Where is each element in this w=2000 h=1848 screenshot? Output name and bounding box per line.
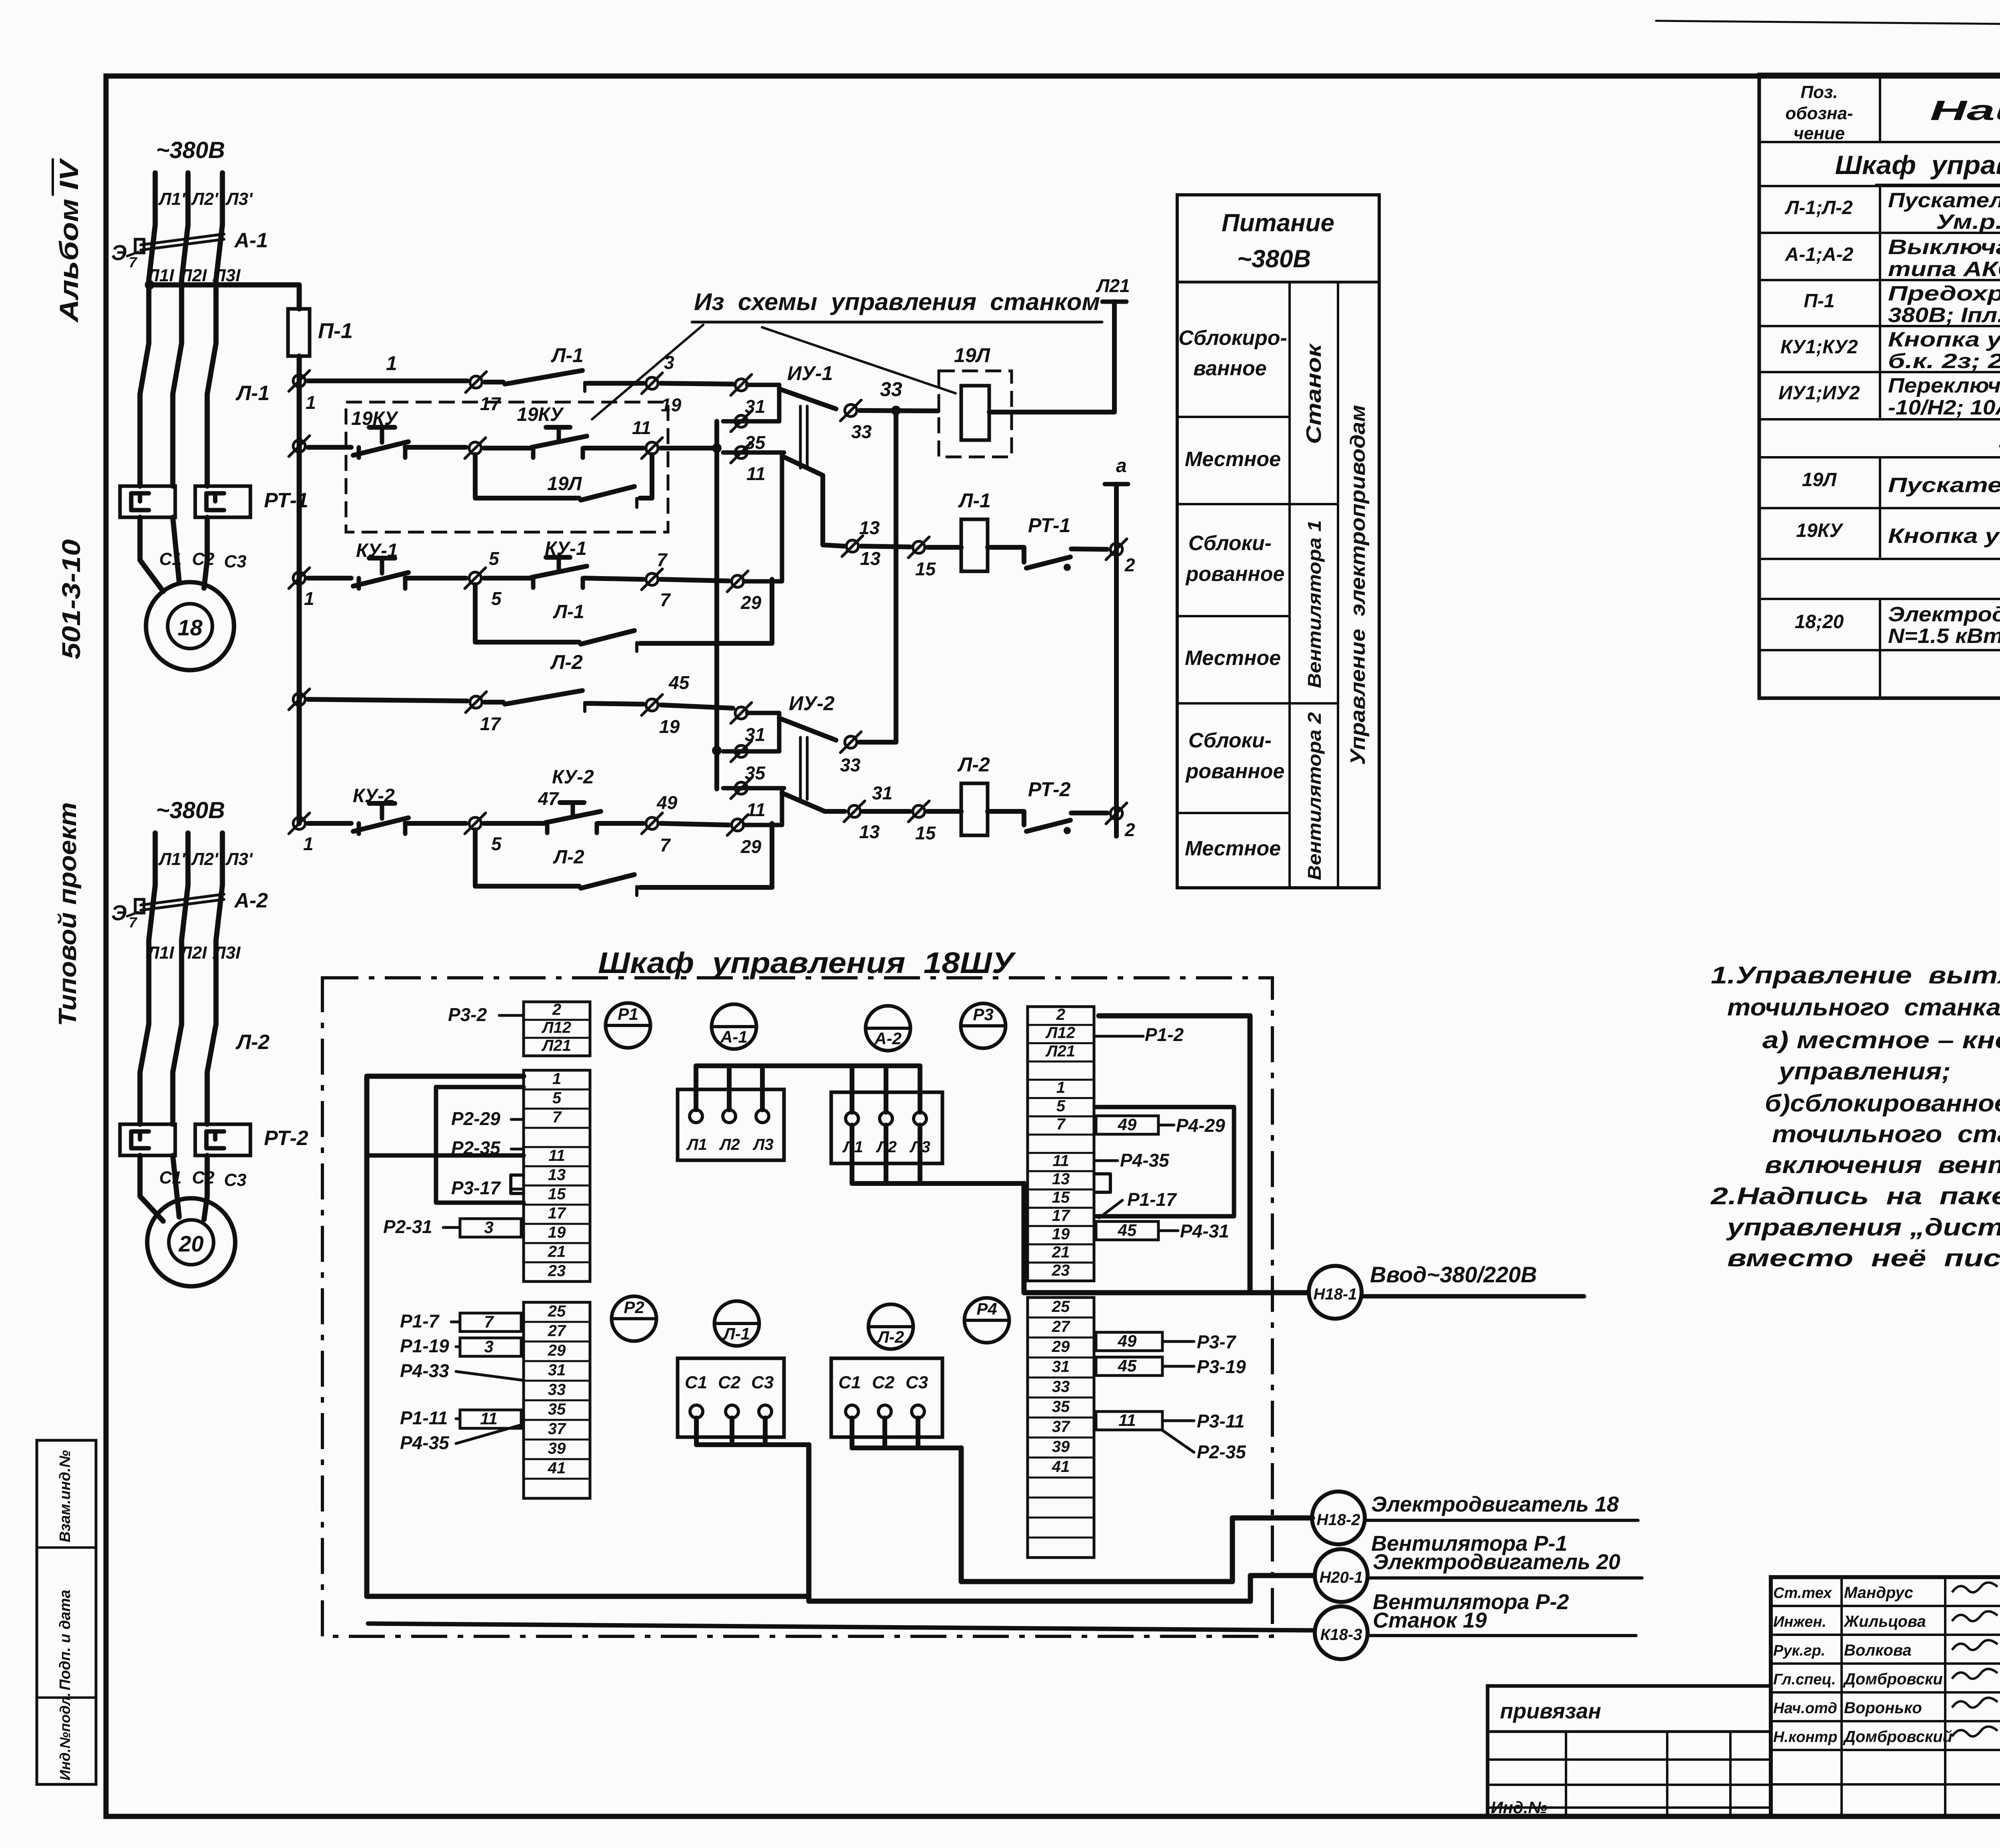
svg-text:35: 35: [548, 1400, 566, 1418]
svg-text:15: 15: [915, 823, 936, 843]
label R4-35: [1096, 1150, 1170, 1171]
svg-text:Л21: Л21: [541, 1037, 571, 1054]
box 49 R4-29: [1096, 1115, 1225, 1136]
svg-text:1: 1: [304, 588, 314, 609]
box 49 R3-7: [1096, 1331, 1237, 1352]
node 2 lower: [1106, 803, 1135, 840]
svg-text:Р3: Р3: [973, 1005, 993, 1024]
row KU1 KU2 buttons: [1780, 328, 2000, 373]
svg-text:7: 7: [129, 914, 138, 931]
rail a: [1105, 455, 1128, 836]
svg-text:Р4-33: Р4-33: [400, 1360, 449, 1381]
contact L-2 rung: [485, 651, 643, 711]
svg-text:Мандрус: Мандрус: [1844, 1584, 1913, 1602]
svg-text:точильного станка предусмотр: точильного станка предусмотрено:: [1727, 994, 2000, 1021]
svg-text:31: 31: [745, 724, 765, 745]
svg-text:19Л: 19Л: [547, 473, 582, 495]
svg-text:35: 35: [1052, 1398, 1070, 1416]
svg-text:Домбровски: Домбровски: [1843, 1670, 1943, 1688]
row 19KU button: [1796, 519, 2000, 548]
svg-text:18;20: 18;20: [1795, 611, 1844, 633]
label R2-31 box 3: [383, 1216, 521, 1237]
svg-text:19Л: 19Л: [954, 344, 991, 366]
button 19KU NC: [351, 408, 408, 458]
svg-text:Местное: Местное: [1185, 837, 1281, 860]
wire rung1 a: [308, 352, 467, 381]
svg-text:Пускатель магнитный типа ПМЕ-1: Пускатель магнитный типа ПМЕ-112: [1888, 189, 2000, 212]
svg-text:б)сблокированное с точильным: б)сблокированное с точильным станком. Пу…: [1765, 1090, 2000, 1117]
svg-text:Управление электроприводам: Управление электроприводам: [1346, 405, 1370, 765]
svg-text:37: 37: [548, 1420, 566, 1438]
box 11b: [460, 1409, 521, 1428]
aux 19L loop: [475, 454, 652, 507]
svg-text:Р2-35: Р2-35: [451, 1137, 501, 1158]
svg-text:Л3': Л3': [225, 849, 253, 869]
box 3b: [460, 1337, 521, 1356]
svg-text:Л-1: Л-1: [235, 382, 270, 405]
svg-text:Р4-31: Р4-31: [1180, 1221, 1229, 1241]
svg-text:2: 2: [1056, 1006, 1065, 1023]
pitanie col stanok: [1302, 343, 1326, 444]
svg-text:ванное: ванное: [1193, 357, 1266, 380]
node 13 lower: [844, 783, 892, 842]
svg-text:Р2: Р2: [624, 1298, 644, 1317]
button KU-2 NC: [353, 785, 408, 834]
lamp P1: [606, 1003, 650, 1048]
margin text 501-3-10: [57, 539, 86, 659]
node 3 19: [642, 352, 682, 415]
svg-text:С1: С1: [159, 549, 182, 569]
svg-text:1: 1: [386, 352, 397, 374]
svg-text:33: 33: [851, 421, 872, 442]
node 49 7: [642, 792, 678, 855]
node 35 upper: [723, 403, 779, 453]
svg-text:Шкаф управления 18ШУ: Шкаф управления 18ШУ: [598, 946, 1016, 979]
pitanie row labels: [1178, 326, 1287, 860]
wire tap to fuse: [145, 280, 299, 309]
node 11 upper stub: [723, 442, 784, 484]
node 33 upper: [840, 400, 872, 442]
svg-text:Местное: Местное: [1185, 448, 1281, 471]
wire coil to rail L21: [989, 410, 1114, 414]
svg-text:С2: С2: [718, 1373, 741, 1392]
wire bus to strip 11: [367, 1153, 524, 1158]
wire loop TR big: [1099, 1016, 1250, 1293]
label R4-35b: [400, 1424, 523, 1453]
svg-text:Л-1: Л-1: [722, 1324, 750, 1343]
pitanie col upravlenie: [1346, 405, 1370, 765]
svg-text:19КУ: 19КУ: [351, 408, 399, 429]
lamp P4: [964, 1298, 1009, 1343]
svg-text:19: 19: [661, 394, 682, 415]
coil L-1: [928, 489, 991, 571]
wire KU2 a: [308, 821, 351, 826]
svg-text:18: 18: [178, 615, 203, 640]
switch IU-2 pole bars: [800, 737, 807, 799]
svg-text:Вентилятора 2: Вентилятора 2: [1304, 712, 1325, 880]
svg-text:Р4: Р4: [976, 1299, 997, 1318]
svg-text:Из схемы управления станком: Из схемы управления станком: [694, 288, 1100, 315]
svg-text:Вентилятора 1: Вентилятора 1: [1304, 520, 1325, 688]
label R1-2: [1096, 1024, 1184, 1045]
node KU2 rung start: [289, 813, 314, 854]
node 29 upper: [727, 571, 762, 613]
svg-text:501-3-10: 501-3-10: [57, 539, 86, 659]
svg-text:5: 5: [552, 1089, 562, 1107]
svg-text:чение: чение: [1794, 124, 1845, 143]
svg-text:Сблоки-: Сблоки-: [1188, 532, 1272, 555]
wire 19KU c: [661, 443, 722, 453]
svg-text:Волкова: Волкова: [1844, 1642, 1912, 1659]
node 15 lower: [908, 801, 936, 843]
svg-text:49: 49: [1118, 1331, 1137, 1350]
svg-text:13: 13: [1052, 1170, 1070, 1188]
wire left bus: [367, 1076, 809, 1596]
svg-text:Л12: Л12: [541, 1019, 571, 1036]
svg-text:С3: С3: [224, 1170, 246, 1190]
outer thin border top right: [1656, 21, 2000, 29]
node 7: [642, 549, 671, 610]
wire C1 box to N20-1: [696, 1418, 1314, 1601]
svg-text:а: а: [1116, 455, 1127, 477]
svg-text:Нач.отд: Нач.отд: [1773, 1700, 1837, 1717]
svg-text:~380В: ~380В: [156, 797, 225, 823]
svg-text:Л3I: Л3I: [212, 943, 241, 963]
node 19KU rung start: [289, 436, 310, 456]
svg-text:45: 45: [668, 672, 690, 693]
svg-text:15: 15: [915, 559, 936, 579]
svg-text:Р4-29: Р4-29: [1176, 1115, 1225, 1136]
svg-text:7: 7: [552, 1109, 562, 1126]
node 15 upper: [908, 537, 936, 579]
node rung1 start: [289, 370, 316, 413]
svg-text:С3: С3: [224, 552, 246, 571]
svg-text:7: 7: [484, 1312, 494, 1331]
svg-text:Н20-1: Н20-1: [1320, 1569, 1363, 1586]
svg-text:Э: Э: [111, 241, 127, 265]
control bus vertical: [297, 356, 302, 823]
label elektrodvigatel 20: [1368, 1550, 1642, 1578]
svg-text:31: 31: [872, 783, 892, 803]
svg-text:Гл.спец.: Гл.спец.: [1773, 1671, 1836, 1688]
svg-text:13: 13: [859, 821, 880, 842]
svg-text:привязан: привязан: [1500, 1699, 1601, 1723]
svg-text:19КУ: 19КУ: [1796, 520, 1844, 541]
svg-text:21: 21: [1052, 1243, 1070, 1261]
svg-text:Л-2: Л-2: [550, 651, 583, 673]
svg-text:33: 33: [1052, 1378, 1070, 1396]
node 11 rung: [632, 417, 662, 458]
svg-text:17: 17: [548, 1205, 566, 1222]
svg-text:Л12: Л12: [1045, 1024, 1075, 1042]
cabinet title: [598, 946, 1016, 979]
svg-text:21: 21: [548, 1243, 566, 1261]
svg-text:Р1-7: Р1-7: [400, 1311, 440, 1331]
node 17 lower: [466, 692, 502, 734]
svg-text:Л-1: Л-1: [958, 489, 991, 512]
pitanie col ventilyatora 1: [1304, 520, 1325, 688]
svg-text:11: 11: [1118, 1411, 1136, 1430]
node 17: [466, 372, 502, 414]
wire KU1 b: [405, 576, 466, 581]
svg-text:Р1-17: Р1-17: [1127, 1189, 1177, 1210]
svg-text:Л-2: Л-2: [235, 1031, 270, 1054]
wire 29 lower bracket: [744, 806, 782, 825]
contact L-1 rung1: [485, 344, 643, 391]
svg-text:2.Надпись на пакетных перек: 2.Надпись на пакетных переключателях шка…: [1710, 1183, 2000, 1209]
svg-text:Р1: Р1: [618, 1005, 638, 1023]
svg-text:Предохранитель типа ПРС-6-П: Предохранитель типа ПРС-6-П: [1888, 282, 2000, 305]
svg-text:Шкаф управления 18ШУ(ШУ5104-: Шкаф управления 18ШУ(ШУ5104-03В2Е): [1835, 150, 2000, 180]
margin text Album IV: [53, 158, 84, 323]
node 19KU mid: [465, 438, 486, 458]
node 35 lower: [712, 733, 779, 783]
svg-text:Ум.р.=4А; 2з; 2р.: Ум.р.=4А; 2з; 2р.: [1936, 210, 2000, 234]
svg-text:КУ-1: КУ-1: [356, 540, 398, 561]
svg-text:Выключатель автоматический: Выключатель автоматический: [1888, 236, 2000, 259]
svg-text:П-1: П-1: [318, 319, 353, 343]
svg-text:1: 1: [306, 392, 316, 413]
fuse P-1: [288, 309, 353, 356]
dashed box station: [346, 402, 668, 532]
thermal contact RT-1: [988, 514, 1107, 571]
lamp P2: [612, 1296, 656, 1341]
button KU-1 NC: [353, 540, 408, 589]
wire KU1 a: [308, 576, 351, 581]
box 45 R3-19: [1096, 1356, 1246, 1377]
svg-text:25: 25: [548, 1302, 566, 1320]
svg-text:Л1': Л1': [158, 189, 186, 209]
svg-text:39: 39: [548, 1440, 566, 1457]
privyazan table: [1488, 1686, 1771, 1817]
svg-text:5: 5: [489, 548, 500, 569]
label vvod 380: [1362, 1262, 1584, 1296]
svg-text:А-1: А-1: [234, 229, 268, 252]
svg-text:1: 1: [1056, 1079, 1065, 1097]
svg-text:С1: С1: [838, 1373, 861, 1392]
box 11 R3-11: [1096, 1411, 1244, 1432]
svg-text:Р3-7: Р3-7: [1197, 1331, 1237, 1352]
button KU-1 NO: [484, 538, 643, 588]
svg-text:А-2: А-2: [234, 889, 268, 912]
svg-text:Л-1;Л-2: Л-1;Л-2: [1784, 197, 1853, 218]
svg-text:29: 29: [740, 592, 762, 613]
svg-text:П-1: П-1: [1804, 290, 1834, 312]
svg-text:КУ-1: КУ-1: [545, 538, 587, 559]
box 45 R4-31: [1096, 1221, 1229, 1241]
svg-text:29: 29: [1052, 1338, 1070, 1355]
lamp A-1: [712, 1004, 756, 1049]
svg-text:3: 3: [484, 1337, 493, 1356]
svg-text:Р3-19: Р3-19: [1197, 1356, 1246, 1377]
svg-text:23: 23: [1052, 1262, 1070, 1279]
svg-text:Переключатель пакетный типа ПП: Переключатель пакетный типа ППМ3-: [1888, 374, 2000, 397]
svg-text:1.Управление вытяжными венти: 1.Управление вытяжными вентиляторами: [1711, 962, 2000, 989]
svg-text:45: 45: [1118, 1356, 1137, 1375]
svg-text:Л2': Л2': [191, 849, 219, 869]
svg-text:47: 47: [538, 788, 560, 809]
svg-text:13: 13: [548, 1166, 566, 1184]
wire stanok 19: [368, 1624, 1315, 1630]
wire KU1 c: [661, 579, 729, 581]
box A-1 terminals: [678, 1089, 784, 1160]
svg-text:точильного станка возможен: точильного станка возможен только после: [1772, 1121, 2000, 1147]
svg-text:Рук.гр.: Рук.гр.: [1773, 1642, 1825, 1659]
svg-text:А-2: А-2: [874, 1029, 902, 1048]
svg-text:17: 17: [480, 713, 502, 734]
svg-text:Л-1: Л-1: [553, 601, 584, 623]
label elektrodvigatel 18: [1365, 1492, 1638, 1520]
svg-text:3: 3: [484, 1218, 493, 1237]
svg-text:Р1-11: Р1-11: [400, 1408, 448, 1428]
coil L-2: [928, 753, 990, 835]
svg-text:Э: Э: [111, 901, 127, 925]
switch IU-1 lower blade: [782, 456, 823, 544]
label R4-33: [400, 1360, 523, 1381]
row 19L starter: [1802, 464, 2000, 509]
label stanok 19: [1368, 1608, 1636, 1636]
svg-text:Р3-17: Р3-17: [451, 1177, 501, 1198]
node 11 lower stub: [723, 778, 784, 820]
row IU1 IU2 switch: [1778, 374, 2000, 419]
connector N20-1: [1315, 1549, 1368, 1602]
svg-text:5: 5: [491, 588, 502, 609]
row L-1 L-2 starter: [1784, 189, 2000, 234]
svg-text:С2: С2: [872, 1373, 895, 1392]
svg-text:С3: С3: [751, 1373, 774, 1392]
svg-text:Л21: Л21: [1096, 275, 1130, 296]
svg-text:20: 20: [178, 1231, 204, 1256]
svg-text:5: 5: [1056, 1097, 1066, 1115]
svg-text:ИУ1;ИУ2: ИУ1;ИУ2: [1778, 382, 1860, 404]
svg-text:Электродвигатель 20: Электродвигатель 20: [1373, 1550, 1620, 1574]
lamp A-2: [866, 1006, 910, 1051]
stamp label Vzam ind: [57, 1450, 74, 1542]
parts table grid: [1759, 74, 2000, 698]
svg-text:Л2: Л2: [719, 1136, 740, 1153]
svg-text:Домбровский: Домбровский: [1843, 1728, 1952, 1746]
svg-text:обозна-: обозна-: [1785, 104, 1853, 123]
label R2-35: [451, 1137, 522, 1158]
link vertical 33: [894, 410, 898, 742]
svg-text:11: 11: [1052, 1152, 1069, 1170]
svg-text:19: 19: [659, 716, 680, 737]
svg-text:2: 2: [552, 1001, 561, 1018]
svg-text:41: 41: [548, 1459, 566, 1477]
wire L2 b: [661, 705, 733, 708]
thermal contact RT-2: [988, 778, 1107, 834]
row A-1 A-2 breaker: [1785, 236, 2000, 281]
svg-text:Ст.тех: Ст.тех: [1773, 1585, 1832, 1602]
svg-text:б.к. 2з; 2р: б.к. 2з; 2р: [1888, 350, 2000, 373]
svg-text:Наименование: Наименование: [1930, 95, 2000, 126]
svg-text:Пускатель магнитный: Пускатель магнитный: [1888, 474, 2000, 497]
svg-text:45: 45: [1118, 1221, 1137, 1239]
node 31 lower: [731, 703, 765, 745]
pitanie table grid: [1177, 195, 1379, 888]
svg-text:Л-2: Л-2: [553, 847, 584, 868]
svg-text:Л2I: Л2I: [179, 943, 207, 963]
svg-text:Р4-35: Р4-35: [1120, 1150, 1170, 1171]
wire 33 to coil: [860, 378, 938, 415]
node 5: [465, 548, 502, 609]
svg-text:33: 33: [840, 755, 861, 775]
svg-text:Типовой проект: Типовой проект: [54, 802, 82, 1026]
svg-text:29: 29: [740, 836, 762, 857]
lamp L-1: [714, 1301, 759, 1346]
svg-text:Р2-31: Р2-31: [383, 1216, 432, 1237]
button 19KU NO: [484, 404, 643, 458]
svg-text:Сблокиро-: Сблокиро-: [1178, 326, 1287, 350]
svg-text:33: 33: [548, 1381, 566, 1398]
svg-text:31: 31: [548, 1361, 566, 1379]
aux L-1 loop: [475, 579, 772, 651]
node 13 upper: [823, 517, 881, 569]
svg-text:Поз.: Поз.: [1800, 82, 1838, 102]
stub 31 lower bracket: [747, 713, 779, 731]
box A-2 terminals: [831, 1092, 942, 1163]
svg-text:23: 23: [548, 1262, 566, 1280]
svg-text:Л3: Л3: [752, 1136, 774, 1153]
svg-text:Взам.инд.№: Взам.инд.№: [57, 1450, 74, 1542]
svg-text:Электродвигатель типа АОЛ2-21-: Электродвигатель типа АОЛ2-21-2ф2: [1888, 603, 2000, 626]
svg-text:типа АК63-3МГ Iр.=5А: типа АК63-3МГ Iр.=5А: [1888, 258, 2000, 281]
svg-text:К18-3: К18-3: [1320, 1626, 1362, 1644]
svg-text:19Л: 19Л: [1802, 469, 1837, 491]
stamp column box: [37, 1440, 96, 1784]
svg-text:РТ-2: РТ-2: [1028, 778, 1071, 801]
svg-text:11: 11: [746, 463, 766, 484]
svg-text:Воронько: Воронько: [1844, 1699, 1922, 1717]
wire 19KU a: [308, 445, 351, 450]
svg-text:15: 15: [1052, 1189, 1070, 1206]
svg-text:27: 27: [548, 1322, 566, 1339]
switch IU-1 pole bars: [800, 406, 807, 468]
svg-text:7: 7: [660, 589, 671, 610]
svg-text:29: 29: [548, 1341, 566, 1359]
svg-text:Р1-19: Р1-19: [400, 1335, 449, 1356]
svg-text:А-1;А-2: А-1;А-2: [1785, 244, 1854, 265]
notes text block: [1710, 962, 2000, 1271]
box C terminals 1: [678, 1358, 784, 1437]
svg-text:11: 11: [632, 417, 651, 438]
svg-text:19КУ: 19КУ: [517, 404, 564, 425]
label R1-7: [400, 1311, 459, 1331]
svg-text:Л3': Л3': [225, 189, 253, 209]
wire 13-15: [861, 546, 910, 547]
svg-text:2: 2: [1124, 819, 1135, 840]
stamp label Podp i data: [57, 1590, 74, 1690]
label R1-19: [400, 1335, 459, 1356]
wire loop TR inner: [1096, 1107, 1234, 1216]
svg-text:17: 17: [480, 393, 502, 414]
svg-text:33: 33: [880, 378, 902, 400]
svg-text:На станке: На станке: [1998, 422, 2000, 453]
motor 20: [0, 0, 0, 0]
node KU1 rung start: [289, 568, 314, 609]
svg-text:РТ-2: РТ-2: [264, 1127, 308, 1150]
svg-text:Кнопка управления: Кнопка управления: [1888, 525, 2000, 548]
svg-text:Л-1: Л-1: [551, 344, 584, 366]
label R3-2: [448, 1004, 522, 1025]
wire 33 lower link: [860, 740, 896, 745]
svg-text:Инд.№: Инд.№: [1491, 1798, 1547, 1817]
svg-text:19: 19: [548, 1224, 566, 1241]
node 47 5: [465, 788, 560, 854]
terminal strip TL small: [524, 1001, 590, 1056]
node 31 upper: [731, 374, 765, 417]
svg-text:Альбом IV: Альбом IV: [54, 158, 84, 323]
